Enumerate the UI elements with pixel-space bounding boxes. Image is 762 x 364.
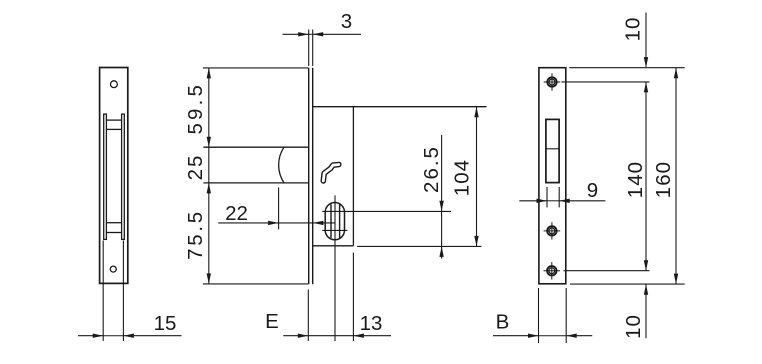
cylinder vertical center line <box>334 195 336 341</box>
svg-text:E: E <box>265 310 279 333</box>
dimension 13 arrow <box>353 334 364 338</box>
svg-text:140: 140 <box>624 161 647 198</box>
case top edge + ext line to 104 <box>313 106 487 108</box>
dimension 15 arrow right <box>123 334 133 338</box>
svg-text:26.5: 26.5 <box>420 145 443 193</box>
cylinder center mark top + ext to 26.5 <box>322 210 451 212</box>
faceplate front line (middle view) <box>308 68 310 285</box>
dimension 160 line <box>675 68 677 284</box>
dimension 3 arrow right <box>313 32 324 36</box>
dimension 140 arrow top <box>644 82 648 93</box>
lever slot outline <box>546 119 559 182</box>
ext line bottom of left chain <box>203 283 308 285</box>
screw hole middle (right view) <box>544 222 561 239</box>
dimension 22 arrow at plate <box>313 221 324 225</box>
ext line E at plate <box>307 290 309 342</box>
arrow down at bolt top <box>207 137 211 148</box>
cylinder obround outline <box>325 203 344 240</box>
case rung upper 1 <box>106 119 121 121</box>
dimension 9 arrow right <box>559 199 570 203</box>
case rung lower 2 <box>106 232 121 234</box>
svg-text:9: 9 <box>587 179 598 202</box>
dimension 9 arrow left <box>537 199 548 203</box>
bottom dimension line E / 13 <box>283 335 391 337</box>
case rung lower 1 <box>106 222 121 224</box>
cylinder slot right line <box>339 204 341 238</box>
dimension 22 tail right <box>313 222 335 224</box>
dimension 10 bottom arrow <box>644 284 648 295</box>
ext line plate bottom right <box>570 283 685 285</box>
dimension 3 middle segment <box>309 33 313 35</box>
ext line case bottom to 104 <box>357 245 481 247</box>
svg-text:160: 160 <box>652 161 675 198</box>
arrow up at plate top <box>207 68 211 79</box>
dimension 140 line <box>645 82 647 271</box>
case right edge <box>352 107 354 246</box>
cylinder slot left line <box>330 204 332 238</box>
dimension 26.5 arrow lower (up at case bottom) <box>439 246 443 257</box>
dimension 26.5 lower tail <box>441 246 443 258</box>
dimension 3 line right tail <box>313 33 361 35</box>
svg-text:10: 10 <box>622 314 645 339</box>
dimension 160 arrow top <box>674 68 678 79</box>
arrow down at plate bottom <box>207 273 211 284</box>
dimension 104 arrow bottom <box>474 236 478 247</box>
dimension 10 top arrow <box>644 57 648 68</box>
svg-text:59.5: 59.5 <box>184 82 207 135</box>
svg-text:25: 25 <box>184 154 207 181</box>
dimension 9 line right tail <box>559 200 605 202</box>
dimension 3 arrow left <box>298 32 309 36</box>
dimension 15 line right tail <box>123 335 181 337</box>
dimension 9 ext left <box>546 187 548 208</box>
svg-text:15: 15 <box>154 312 177 335</box>
svg-text:10: 10 <box>622 17 645 42</box>
lever slot inner line <box>546 148 559 150</box>
dimension 22 ext line at bolt face <box>278 188 280 230</box>
dimension 104 arrow top <box>474 107 478 118</box>
screw hole bottom (right view) <box>544 262 561 279</box>
svg-text:104: 104 <box>451 159 474 196</box>
svg-text:13: 13 <box>360 312 383 335</box>
faceplate outline (right view) <box>539 68 566 284</box>
faceplate back line (middle view) <box>312 68 314 285</box>
ext line plate top right <box>569 67 684 69</box>
case rung upper 2 <box>106 128 121 130</box>
dimension 26.5 arrow upper (down at cylinder center) <box>439 201 443 212</box>
dimension 9 ext right <box>558 187 560 208</box>
dimension 3 line left tail <box>283 33 309 35</box>
dimension B ext left <box>538 288 540 343</box>
left chain dimension line <box>208 68 210 284</box>
dimension 10 bottom outside line <box>645 284 647 338</box>
extension lines for dim 3 <box>308 30 310 67</box>
dimension 104 line <box>476 107 478 246</box>
dimension E arrow <box>298 334 309 338</box>
svg-text:75.5: 75.5 <box>184 209 207 260</box>
faceplate outline (left view) <box>100 68 128 284</box>
ext line bottom hole center <box>564 270 650 272</box>
dimension B ext right <box>565 288 567 343</box>
dimension 9 middle segment <box>547 200 559 202</box>
dimension 15 line left tail <box>78 335 103 337</box>
bolt bottom edge <box>203 182 308 184</box>
svg-text:3: 3 <box>341 10 352 33</box>
bottom screw hole (left view) <box>110 266 116 272</box>
dimension B arrow left <box>528 334 539 338</box>
dimension 15 arrow left <box>93 334 104 338</box>
keyhole cutout outer <box>323 165 339 181</box>
dimension 22 arrow at bolt face <box>268 221 279 225</box>
bolt face arc <box>279 147 284 183</box>
dimension 10 top outside line <box>645 13 647 67</box>
ext line top of left chain <box>203 67 308 69</box>
dimension B middle segment <box>539 335 567 337</box>
top screw hole (left view) <box>111 81 118 88</box>
case right wall (left view) <box>122 114 125 239</box>
extension line right of dim 15 <box>122 241 124 342</box>
dimension B line right tail <box>566 335 592 337</box>
ext line top hole center <box>562 81 650 83</box>
arrow up at bolt bottom <box>207 183 211 194</box>
extension line left of dim 15 <box>102 241 104 342</box>
dimension 140 arrow bottom <box>644 260 648 271</box>
dimension B line left tail <box>493 335 539 337</box>
dimension 9 line left tail <box>519 200 547 202</box>
keyhole cutout inner white <box>323 165 339 181</box>
cylinder center mark bottom <box>322 229 347 231</box>
ext line 13 (case right edge continued) <box>352 253 354 342</box>
svg-text:B: B <box>496 311 510 334</box>
dimension 26.5 line <box>441 135 443 247</box>
dimension 22 line left <box>218 222 313 224</box>
dimension 15 middle segment <box>103 335 123 337</box>
case left wall (left view) <box>104 114 107 239</box>
bolt top edge <box>203 146 308 148</box>
screw hole top (right view) <box>544 73 561 90</box>
svg-text:22: 22 <box>225 202 248 225</box>
dimension 160 arrow bottom <box>674 274 678 285</box>
case bottom edge <box>313 245 354 247</box>
dimension B arrow right <box>566 334 577 338</box>
